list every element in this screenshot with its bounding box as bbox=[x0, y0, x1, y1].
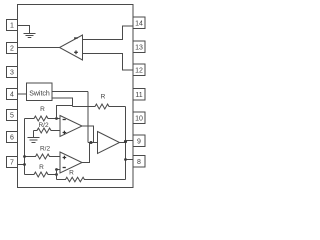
svg-text:R: R bbox=[69, 170, 74, 177]
wire U3 output staircase to buffer input bbox=[82, 143, 90, 163]
wire U1 minus input to pin 14 bbox=[83, 26, 134, 40]
IC package outline bbox=[18, 5, 134, 188]
pin 6 box bbox=[7, 132, 18, 143]
wire buffer output to bus bbox=[120, 142, 126, 144]
op-amp U3 (bottom middle) bbox=[60, 152, 82, 173]
svg-text:R/2: R/2 bbox=[40, 146, 51, 153]
junction dot B- lead bbox=[55, 173, 58, 176]
wire switch lower output to feedback R bbox=[52, 98, 73, 107]
resistor R top-right (feedback) bbox=[73, 94, 126, 110]
op-amp U1 comparator (left-pointing) bbox=[60, 35, 83, 60]
resistor R/2 second bbox=[25, 146, 61, 160]
pin 8 box bbox=[133, 156, 145, 168]
svg-text:Switch: Switch bbox=[29, 90, 50, 97]
svg-text:R: R bbox=[40, 106, 45, 113]
pin 10 box bbox=[133, 112, 145, 124]
wire to B- input bbox=[57, 169, 61, 171]
svg-text:3: 3 bbox=[10, 70, 14, 77]
pin 2 box bbox=[7, 43, 18, 54]
pin 3 box bbox=[7, 67, 18, 78]
switch box bbox=[27, 83, 53, 101]
output bus vertical bbox=[125, 107, 127, 180]
left bus vertical bbox=[24, 119, 26, 175]
svg-text:5: 5 bbox=[10, 113, 14, 120]
junction dot bus/R2 bbox=[23, 155, 26, 158]
wire bus to pin 9 bbox=[126, 140, 134, 142]
pin 11 box bbox=[133, 89, 145, 101]
junction dot output bus bbox=[124, 140, 127, 143]
pin 13 box bbox=[133, 41, 145, 53]
wire branch down to node A- bbox=[57, 106, 73, 119]
junction dot pin 8 bbox=[124, 158, 127, 161]
svg-text:11: 11 bbox=[135, 92, 142, 99]
svg-text:14: 14 bbox=[135, 20, 143, 27]
junction dot buffer input bbox=[90, 141, 93, 144]
svg-text:R: R bbox=[39, 164, 44, 171]
wire U2 output staircase to buffer input bbox=[82, 126, 94, 143]
svg-text:7: 7 bbox=[10, 160, 14, 167]
node A- junction dot bbox=[55, 117, 58, 120]
svg-text:13: 13 bbox=[135, 44, 143, 51]
svg-text:12: 12 bbox=[135, 67, 143, 74]
svg-text:6: 6 bbox=[10, 135, 14, 142]
svg-text:4: 4 bbox=[10, 92, 14, 99]
pin 1 box bbox=[7, 20, 18, 31]
resistor R bottom-right (feedback) bbox=[57, 170, 126, 182]
pin 9 box bbox=[133, 135, 145, 147]
wire pin2 to U1 output bbox=[18, 47, 60, 49]
pin 14 box bbox=[133, 17, 145, 29]
ground symbol G2 bbox=[28, 131, 40, 143]
junction dot bus/pin7 bbox=[23, 163, 26, 166]
wire pin 7 bbox=[18, 164, 25, 166]
wire B- down to bottom feedback bbox=[56, 170, 58, 180]
svg-text:10: 10 bbox=[135, 115, 143, 122]
wire switch branch down to buffer input bbox=[87, 92, 89, 143]
wire switch upper output bbox=[52, 91, 88, 93]
wire U1 plus input to pin 12 bbox=[83, 54, 134, 71]
svg-text:1: 1 bbox=[10, 23, 14, 30]
buffer input line bbox=[88, 142, 98, 144]
resistor R bottom-left bbox=[25, 164, 57, 177]
wire pin4 to switch bbox=[18, 93, 27, 95]
op-amp U2 (top middle) bbox=[60, 116, 82, 137]
wire pin1 to ground bbox=[18, 26, 30, 34]
buffer U4 bbox=[98, 132, 120, 154]
svg-text:2: 2 bbox=[10, 46, 14, 53]
pin 5 box bbox=[7, 110, 18, 121]
pin 12 box bbox=[133, 64, 145, 76]
resistor R/2 first bbox=[34, 122, 61, 133]
pin 4 box bbox=[7, 89, 18, 100]
svg-text:R: R bbox=[101, 94, 106, 101]
wire bus to pin 8 bbox=[126, 159, 134, 161]
svg-text:9: 9 bbox=[137, 138, 141, 145]
ground symbol G1 bbox=[24, 34, 36, 38]
svg-text:8: 8 bbox=[137, 159, 141, 166]
resistor R top-left (input R) bbox=[25, 106, 61, 121]
pin 7 box bbox=[7, 157, 18, 168]
